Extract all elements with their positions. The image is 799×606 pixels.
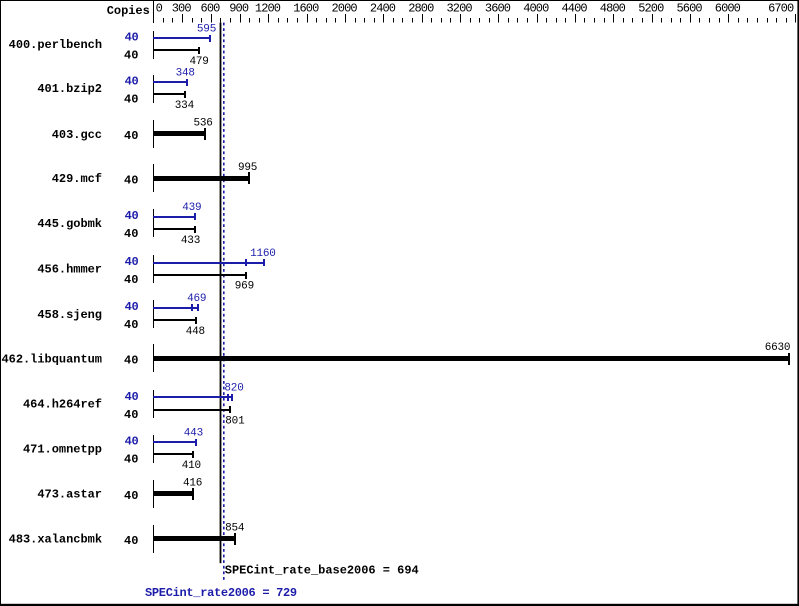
svg-text:536: 536: [193, 118, 212, 130]
svg-text:40: 40: [124, 227, 138, 241]
svg-text:40: 40: [124, 453, 138, 467]
svg-text:4800: 4800: [600, 2, 626, 16]
svg-text:854: 854: [225, 522, 245, 534]
benchmark row 400.perlbench: [9, 23, 216, 68]
svg-text:2800: 2800: [408, 2, 434, 16]
benchmark row 429.mcf: [52, 162, 257, 192]
471.omnetpp peak bar (443): [153, 441, 196, 443]
svg-text:4000: 4000: [523, 2, 549, 16]
benchmark row 458.sjeng: [37, 293, 206, 338]
svg-text:300: 300: [172, 2, 192, 16]
429.mcf start line: [153, 164, 154, 192]
svg-text:40: 40: [124, 354, 138, 368]
svg-text:400.perlbench: 400.perlbench: [9, 38, 102, 52]
svg-text:40: 40: [124, 173, 138, 187]
svg-text:4400: 4400: [561, 2, 587, 16]
svg-text:40: 40: [124, 408, 138, 422]
464.h264ref peak bar (820): [153, 396, 232, 398]
483.xalancbmk base bar (854): [153, 536, 235, 541]
svg-text:2400: 2400: [370, 2, 396, 16]
benchmark row 445.gobmk: [37, 202, 201, 247]
458.sjeng peak bar (469): [153, 307, 198, 309]
svg-text:458.sjeng: 458.sjeng: [37, 308, 102, 322]
svg-text:0: 0: [156, 2, 163, 16]
svg-text:969: 969: [235, 281, 254, 293]
svg-text:479: 479: [189, 56, 208, 68]
445.gobmk peak bar (439): [153, 216, 195, 218]
svg-text:5200: 5200: [638, 2, 664, 16]
svg-text:410: 410: [182, 460, 201, 472]
svg-text:995: 995: [238, 162, 257, 174]
peak score reference line (729, dotted): [223, 23, 225, 580]
svg-text:40: 40: [125, 255, 139, 269]
svg-text:401.bzip2: 401.bzip2: [37, 82, 102, 96]
svg-text:SPECint_rate_base2006 = 694: SPECint_rate_base2006 = 694: [225, 564, 419, 578]
svg-text:483.xalancbmk: 483.xalancbmk: [9, 533, 102, 547]
svg-text:40: 40: [124, 48, 138, 62]
y-axis vertical line (top): [153, 0, 154, 23]
svg-text:40: 40: [125, 435, 139, 449]
svg-text:469: 469: [187, 293, 206, 305]
svg-text:464.h264ref: 464.h264ref: [23, 398, 102, 412]
458.sjeng start line: [153, 300, 154, 328]
benchmark row 403.gcc: [52, 118, 213, 149]
benchmark row 462.libquantum: [1, 342, 790, 372]
svg-text:40: 40: [124, 534, 138, 548]
svg-text:2000: 2000: [331, 2, 357, 16]
svg-text:40: 40: [124, 92, 138, 106]
svg-text:6700: 6700: [768, 2, 794, 16]
svg-text:448: 448: [186, 326, 205, 338]
svg-text:595: 595: [197, 23, 216, 35]
456.hmmer peak bar (1160): [153, 262, 265, 264]
svg-text:6000: 6000: [715, 2, 741, 16]
471.omnetpp base bar (410): [153, 453, 193, 455]
svg-text:40: 40: [125, 209, 139, 223]
400.perlbench base bar (479): [153, 49, 199, 51]
svg-text:SPECint_rate2006 = 729: SPECint_rate2006 = 729: [145, 586, 297, 600]
svg-text:820: 820: [224, 383, 243, 395]
svg-text:40: 40: [124, 273, 138, 287]
benchmark row 483.xalancbmk: [9, 522, 245, 553]
462.libquantum base bar (6630): [153, 356, 789, 361]
471.omnetpp start line: [153, 435, 154, 463]
svg-text:801: 801: [225, 416, 245, 428]
483.xalancbmk start line: [153, 525, 154, 553]
456.hmmer start line: [153, 255, 154, 283]
403.gcc start line: [153, 120, 154, 148]
445.gobmk start line: [153, 209, 154, 237]
401.bzip2 start line: [153, 75, 154, 103]
benchmark row 473.astar: [37, 477, 202, 508]
445.gobmk base bar (433): [153, 228, 195, 230]
svg-text:3600: 3600: [485, 2, 511, 16]
403.gcc base bar (536): [153, 131, 205, 136]
benchmark row 464.h264ref: [23, 383, 245, 428]
svg-text:1600: 1600: [293, 2, 319, 16]
svg-text:433: 433: [181, 235, 200, 247]
benchmark row 401.bzip2: [37, 67, 194, 112]
svg-text:1160: 1160: [250, 248, 276, 260]
svg-text:40: 40: [124, 489, 138, 503]
base score reference line (694): [220, 23, 222, 564]
svg-text:348: 348: [176, 67, 195, 79]
outer border frame: [0, 0, 799, 1]
x-axis tick marks: [153, 14, 796, 23]
464.h264ref base bar (801): [153, 409, 230, 411]
svg-text:1200: 1200: [255, 2, 281, 16]
429.mcf base bar (995): [153, 176, 249, 181]
svg-text:445.gobmk: 445.gobmk: [37, 217, 102, 231]
svg-text:439: 439: [182, 202, 201, 214]
svg-text:443: 443: [184, 427, 203, 439]
473.astar base bar (416): [153, 491, 193, 496]
473.astar start line: [153, 480, 154, 508]
svg-text:900: 900: [229, 2, 249, 16]
svg-text:6630: 6630: [765, 342, 791, 354]
svg-text:429.mcf: 429.mcf: [52, 172, 102, 186]
401.bzip2 peak bar (348): [153, 81, 187, 83]
svg-text:456.hmmer: 456.hmmer: [37, 263, 102, 277]
svg-text:334: 334: [175, 100, 195, 112]
458.sjeng base bar (448): [153, 319, 196, 321]
svg-text:3200: 3200: [446, 2, 472, 16]
svg-text:600: 600: [201, 2, 221, 16]
svg-text:Copies: Copies: [107, 4, 150, 18]
svg-text:471.omnetpp: 471.omnetpp: [23, 442, 102, 456]
svg-text:40: 40: [125, 300, 139, 314]
462.libquantum start line: [153, 344, 154, 372]
401.bzip2 base bar (334): [153, 93, 185, 95]
svg-text:5600: 5600: [676, 2, 702, 16]
benchmark row 456.hmmer: [37, 248, 275, 293]
400.perlbench peak bar (595): [153, 37, 210, 39]
464.h264ref start line: [153, 390, 154, 418]
svg-text:40: 40: [124, 129, 138, 143]
svg-text:40: 40: [124, 318, 138, 332]
svg-text:40: 40: [125, 390, 139, 404]
svg-text:416: 416: [183, 477, 202, 489]
svg-text:473.astar: 473.astar: [37, 488, 102, 502]
svg-text:403.gcc: 403.gcc: [52, 128, 102, 142]
svg-text:40: 40: [125, 30, 139, 44]
svg-text:40: 40: [125, 74, 139, 88]
benchmark row 471.omnetpp: [23, 427, 203, 472]
456.hmmer base bar (969): [153, 274, 246, 276]
x-axis scale labels: [156, 2, 794, 16]
svg-text:462.libquantum: 462.libquantum: [1, 353, 102, 367]
400.perlbench start line: [153, 31, 154, 59]
